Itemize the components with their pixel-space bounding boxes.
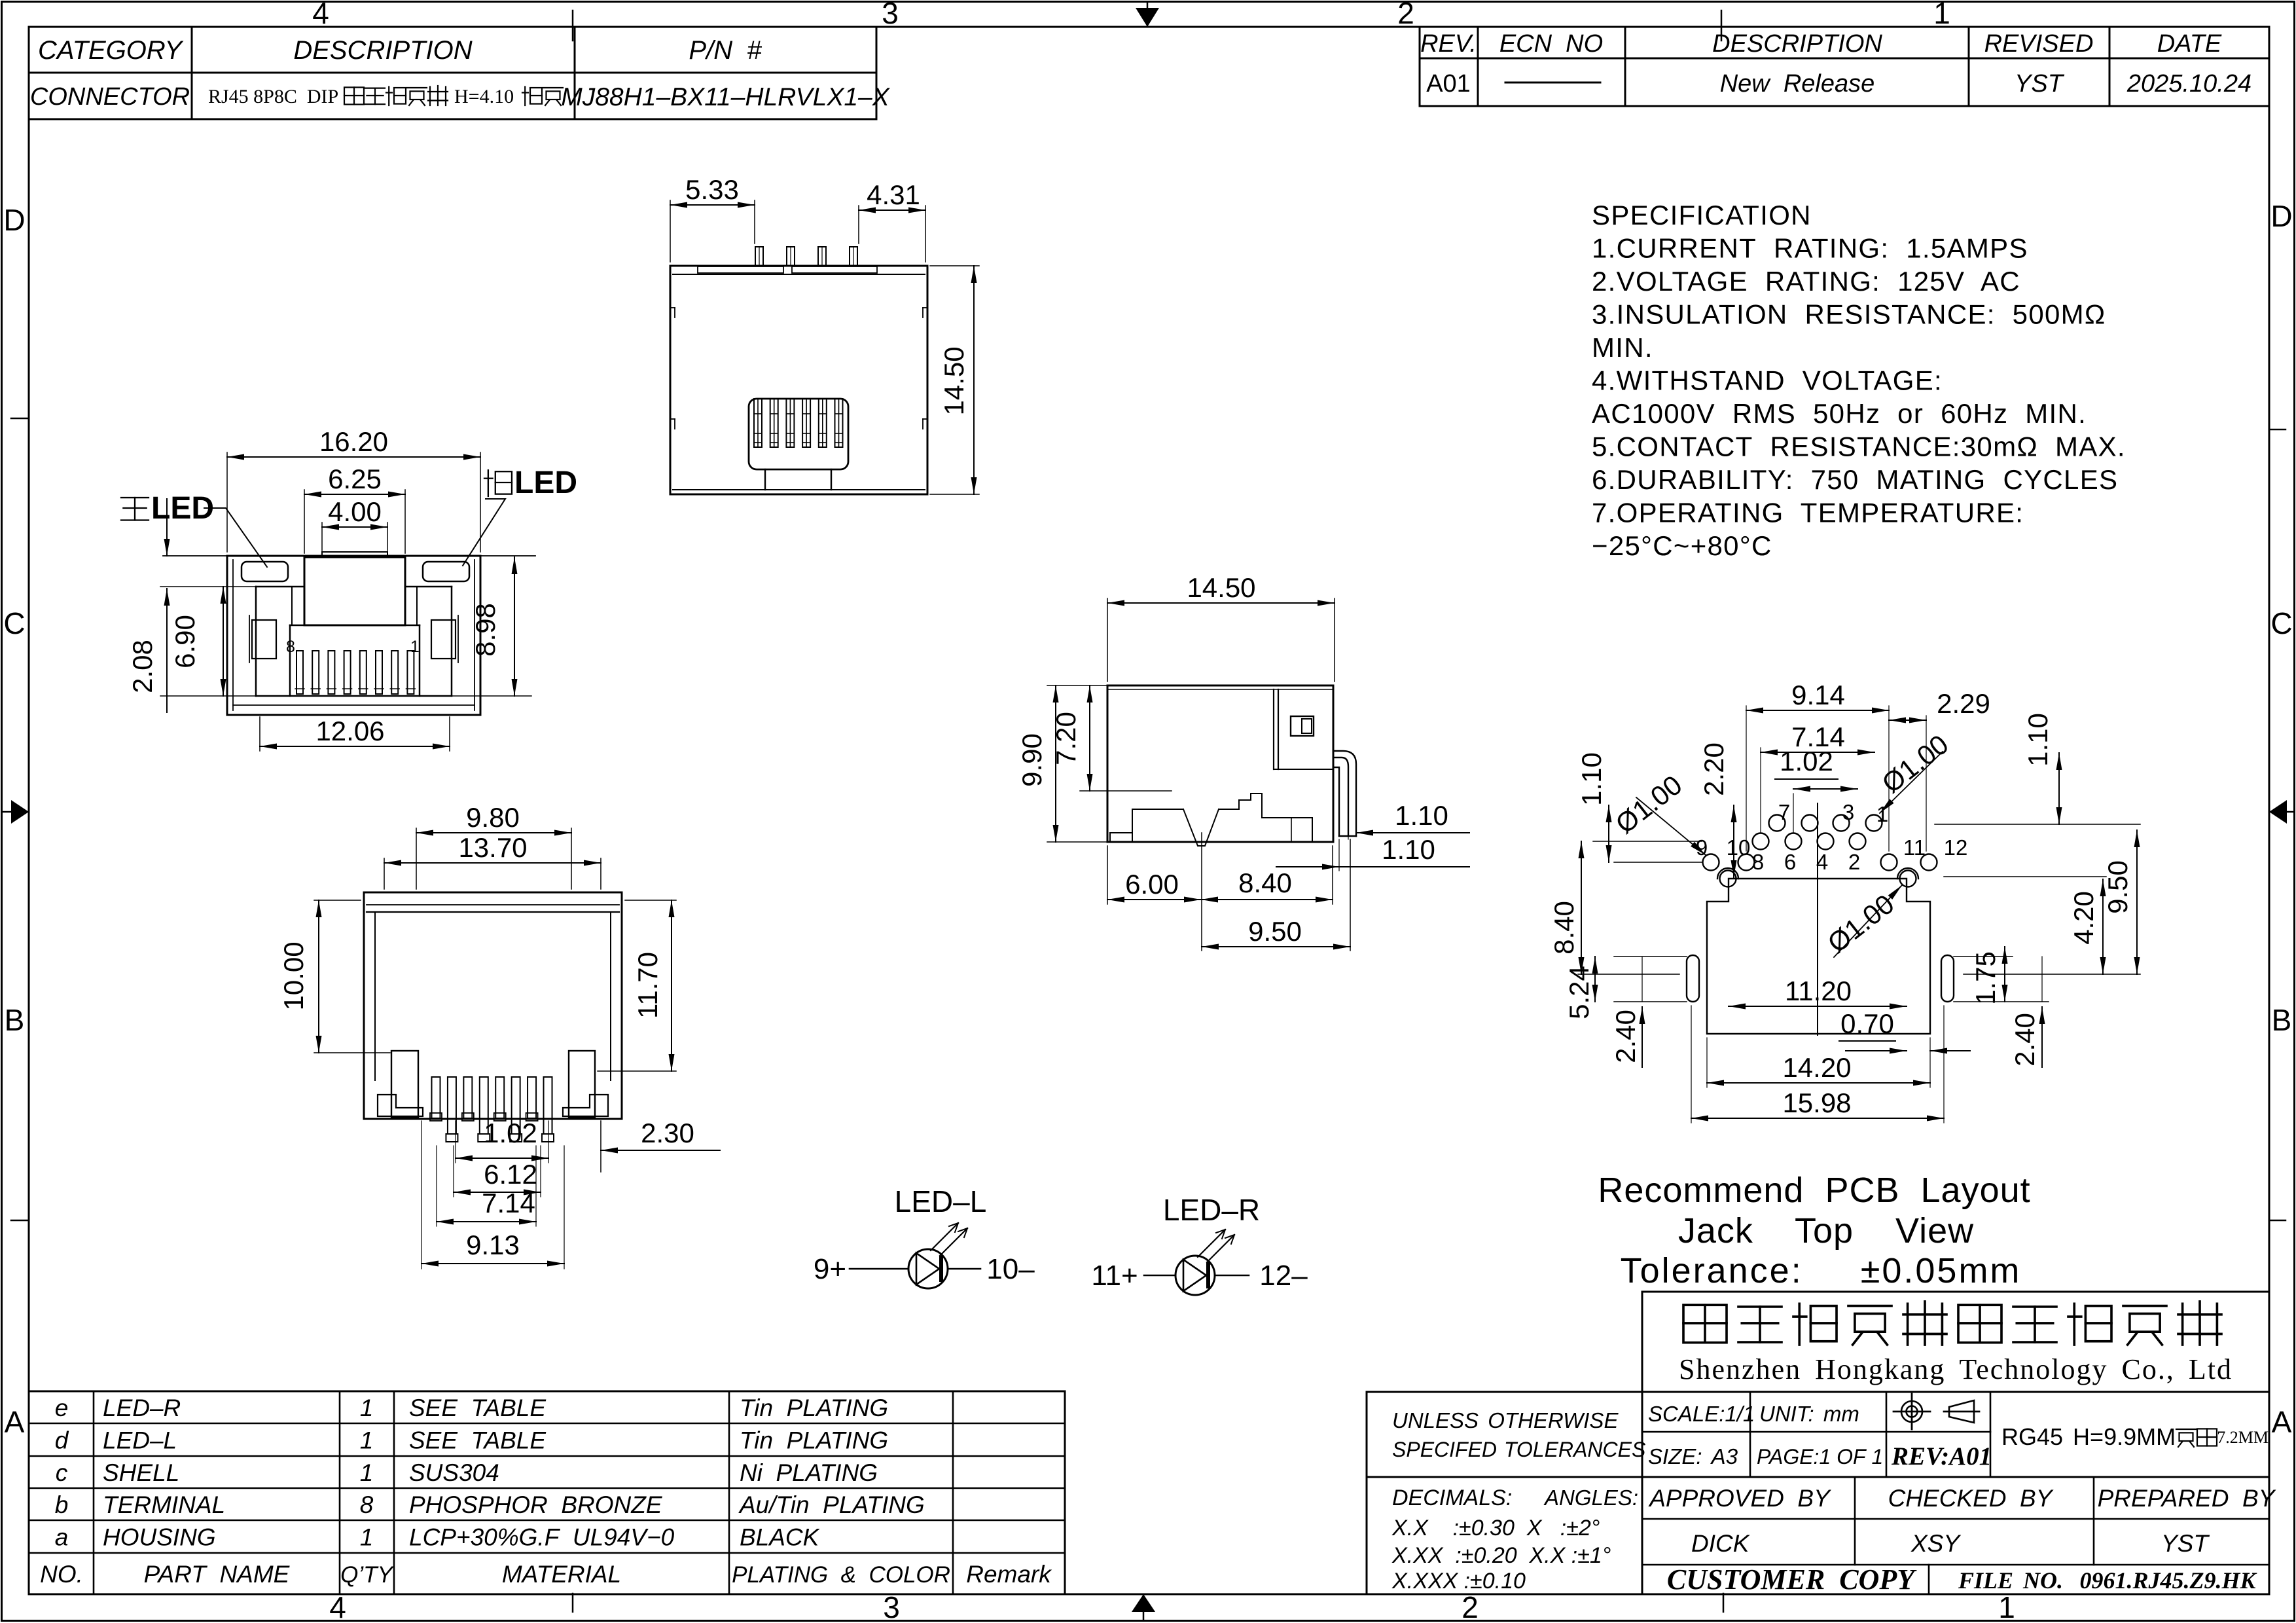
svg-text:B: B (2272, 1003, 2292, 1037)
svg-text:LED–L: LED–L (895, 1184, 987, 1218)
svg-text:12–: 12– (1259, 1260, 1308, 1292)
svg-text:DATE: DATE (2157, 30, 2222, 58)
svg-text:1: 1 (360, 1459, 374, 1486)
svg-text:SEE TABLE: SEE TABLE (409, 1427, 547, 1453)
svg-text:Ø1.00: Ø1.00 (1876, 729, 1954, 799)
svg-text:Ø1.00: Ø1.00 (1822, 888, 1900, 958)
svg-text:P/N #: P/N # (689, 36, 762, 65)
svg-text:Q’TY: Q’TY (340, 1562, 394, 1588)
svg-text:2.VOLTAGE RATING: 125V AC: 2.VOLTAGE RATING: 125V AC (1592, 266, 2020, 297)
svg-text:7.OPERATING TEMPERATURE:: 7.OPERATING TEMPERATURE: (1592, 498, 2024, 528)
svg-text:A: A (2272, 1405, 2292, 1439)
svg-text:AC1000V RMS 50Hz or 60Hz: AC1000V RMS 50Hz or 60Hz MIN. (1592, 398, 2087, 429)
svg-text:7.2MM: 7.2MM (2217, 1428, 2269, 1447)
svg-text:1: 1 (360, 1395, 374, 1421)
svg-text:8: 8 (286, 638, 295, 656)
svg-text:RG45 H=9.9MM: RG45 H=9.9MM (2001, 1423, 2176, 1450)
svg-text:UNIT: mm: UNIT: mm (1759, 1402, 1859, 1426)
svg-text:Au/Tin PLATING: Au/Tin PLATING (738, 1491, 925, 1518)
svg-text:HOUSING: HOUSING (103, 1524, 216, 1551)
svg-text:H=4.10: H=4.10 (454, 86, 514, 107)
svg-text:9.90: 9.90 (1016, 733, 1047, 787)
svg-text:1.10: 1.10 (1576, 752, 1607, 806)
svg-text:9.14: 9.14 (1791, 680, 1845, 710)
svg-text:SPECIFED TOLERANCES: SPECIFED TOLERANCES (1392, 1438, 1645, 1461)
svg-text:6.DURABILITY: 750 MATING CY: 6.DURABILITY: 750 MATING CYCLES (1592, 464, 2118, 495)
svg-text:Recommend PCB Layout: Recommend PCB Layout (1598, 1171, 2030, 1210)
svg-text:1: 1 (1998, 1590, 2015, 1623)
svg-text:7.20: 7.20 (1050, 712, 1081, 765)
svg-text:CATEGORY: CATEGORY (38, 36, 184, 65)
svg-text:6: 6 (1784, 850, 1796, 874)
svg-text:5.33: 5.33 (685, 174, 739, 205)
svg-text:1.10: 1.10 (1382, 834, 1435, 865)
svg-text:Ø1.00: Ø1.00 (1610, 769, 1688, 839)
svg-text:3: 3 (882, 0, 899, 30)
svg-text:A: A (5, 1405, 25, 1439)
svg-text:C: C (3, 606, 25, 640)
svg-text:Tin PLATING: Tin PLATING (740, 1395, 888, 1421)
svg-text:6.25: 6.25 (328, 464, 382, 494)
svg-text:6.00: 6.00 (1125, 869, 1179, 900)
svg-text:PART NAME: PART NAME (144, 1561, 291, 1588)
svg-text:14.50: 14.50 (939, 346, 969, 415)
svg-text:PREPARED BY: PREPARED BY (2098, 1485, 2276, 1512)
svg-text:6.12: 6.12 (484, 1159, 537, 1190)
svg-text:LCP+30%G.F UL94V−0: LCP+30%G.F UL94V−0 (409, 1524, 675, 1551)
svg-text:1: 1 (1933, 0, 1950, 30)
svg-text:12.06: 12.06 (315, 716, 384, 746)
svg-text:11+: 11+ (1091, 1260, 1138, 1292)
svg-text:8.40: 8.40 (1549, 901, 1579, 955)
svg-text:11.20: 11.20 (1785, 976, 1852, 1006)
svg-text:DESCRIPTION: DESCRIPTION (1712, 30, 1882, 58)
svg-text:1: 1 (360, 1427, 374, 1453)
svg-text:Jack Top View: Jack Top View (1678, 1211, 1974, 1250)
svg-text:X.XX :±0.20 X.X :±1°: X.XX :±0.20 X.X :±1° (1391, 1543, 1611, 1568)
svg-text:8: 8 (360, 1491, 374, 1518)
svg-text:4.WITHSTAND VOLTAGE:: 4.WITHSTAND VOLTAGE: (1592, 365, 1943, 396)
svg-text:XSY: XSY (1910, 1530, 1961, 1557)
svg-text:MATERIAL: MATERIAL (502, 1561, 621, 1588)
svg-text:14.20: 14.20 (1782, 1052, 1851, 1083)
svg-text:12: 12 (1944, 835, 1968, 860)
svg-text:2.30: 2.30 (641, 1118, 694, 1148)
svg-text:CUSTOMER COPY: CUSTOMER COPY (1667, 1563, 1917, 1596)
svg-text:X.X :±0.30 X :±2°: X.X :±0.30 X :±2° (1391, 1516, 1600, 1541)
svg-text:e: e (55, 1395, 69, 1421)
svg-text:2025.10.24: 2025.10.24 (2126, 70, 2251, 98)
svg-text:1.75: 1.75 (1970, 951, 2001, 1005)
svg-text:REV.: REV. (1420, 30, 1477, 58)
svg-text:10–: 10– (986, 1253, 1035, 1285)
svg-text:b: b (55, 1491, 69, 1518)
svg-text:PLATING & COLOR: PLATING & COLOR (732, 1562, 950, 1588)
svg-text:2: 2 (1397, 0, 1414, 30)
svg-text:8.40: 8.40 (1238, 867, 1292, 898)
svg-text:9.50: 9.50 (2102, 860, 2133, 914)
svg-text:DESCRIPTION: DESCRIPTION (293, 36, 472, 65)
svg-text:9+: 9+ (814, 1253, 846, 1285)
svg-text:1.10: 1.10 (2022, 713, 2053, 767)
svg-text:REVISED: REVISED (1984, 30, 2094, 58)
svg-text:Remark: Remark (966, 1561, 1052, 1588)
svg-text:8.98: 8.98 (470, 603, 501, 657)
svg-text:SIZE: A3: SIZE: A3 (1648, 1444, 1738, 1468)
svg-text:UNLESS OTHERWISE: UNLESS OTHERWISE (1392, 1408, 1619, 1432)
svg-text:YST: YST (2161, 1530, 2210, 1557)
svg-text:NO.: NO. (40, 1561, 83, 1588)
svg-text:5.24: 5.24 (1564, 966, 1594, 1019)
svg-text:2.29: 2.29 (1937, 688, 1990, 719)
svg-text:1: 1 (410, 638, 420, 656)
svg-text:MJ88H1–BX11–HLRVLX1–X: MJ88H1–BX11–HLRVLX1–X (561, 83, 891, 111)
svg-text:SHELL: SHELL (103, 1459, 179, 1486)
svg-text:TERMINAL: TERMINAL (103, 1491, 225, 1518)
svg-text:SEE TABLE: SEE TABLE (409, 1395, 547, 1421)
svg-text:9.50: 9.50 (1248, 916, 1302, 947)
svg-text:0961.RJ45.Z9.HK: 0961.RJ45.Z9.HK (2079, 1567, 2257, 1594)
svg-text:REV:A01: REV:A01 (1891, 1442, 1992, 1470)
svg-text:B: B (5, 1003, 25, 1037)
svg-text:2.20: 2.20 (1698, 742, 1729, 796)
svg-text:5.CONTACT RESISTANCE:30mΩ MA: 5.CONTACT RESISTANCE:30mΩ MAX. (1592, 431, 2126, 462)
svg-text:PHOSPHOR BRONZE: PHOSPHOR BRONZE (409, 1491, 663, 1518)
svg-text:1.CURRENT RATING: 1.5AMPS: 1.CURRENT RATING: 1.5AMPS (1592, 233, 2028, 264)
svg-text:4: 4 (312, 0, 329, 30)
svg-text:6.90: 6.90 (170, 615, 200, 668)
svg-text:D: D (2270, 199, 2292, 233)
svg-text:3.INSULATION RESISTANCE: 500: 3.INSULATION RESISTANCE: 500MΩ (1592, 299, 2106, 330)
svg-text:ANGLES:: ANGLES: (1543, 1486, 1638, 1510)
svg-text:10.00: 10.00 (278, 941, 309, 1010)
svg-text:SUS304: SUS304 (409, 1459, 499, 1486)
svg-text:Shenzhen Hongkang Technology C: Shenzhen Hongkang Technology Co., Ltd (1679, 1353, 2233, 1385)
svg-text:ECN NO: ECN NO (1499, 30, 1603, 58)
svg-text:8: 8 (1752, 850, 1764, 874)
svg-text:DICK: DICK (1691, 1530, 1751, 1557)
svg-text:LED–L: LED–L (103, 1427, 177, 1453)
svg-text:APPROVED BY: APPROVED BY (1648, 1485, 1831, 1512)
svg-text:LED–R: LED–R (103, 1395, 181, 1421)
svg-text:Tolerance: ±0.05mm: Tolerance: ±0.05mm (1621, 1251, 2022, 1290)
svg-text:PAGE:1 OF 1: PAGE:1 OF 1 (1757, 1445, 1883, 1468)
svg-text:X.XXX :±0.10: X.XXX :±0.10 (1391, 1569, 1526, 1594)
svg-text:9.80: 9.80 (466, 802, 520, 833)
svg-text:7: 7 (1778, 800, 1790, 824)
svg-text:1: 1 (360, 1524, 374, 1551)
svg-text:C: C (2270, 606, 2292, 640)
svg-text:D: D (3, 203, 25, 237)
svg-text:2: 2 (1848, 850, 1860, 874)
svg-text:3: 3 (1842, 800, 1854, 824)
svg-text:7.14: 7.14 (482, 1188, 535, 1218)
svg-text:FILE NO.: FILE NO. (1958, 1567, 2063, 1594)
svg-text:RJ45 8P8C DIP: RJ45 8P8C DIP (208, 86, 338, 107)
svg-text:1.02: 1.02 (484, 1118, 537, 1148)
svg-text:CHECKED BY: CHECKED BY (1888, 1485, 2054, 1512)
svg-text:LED–R: LED–R (1163, 1193, 1260, 1227)
svg-text:10: 10 (1727, 835, 1751, 860)
svg-text:4: 4 (1816, 850, 1828, 874)
svg-text:LED: LED (514, 465, 577, 500)
svg-text:14.50: 14.50 (1187, 572, 1255, 603)
svg-text:A01: A01 (1426, 70, 1471, 98)
svg-text:11.70: 11.70 (632, 952, 663, 1019)
svg-text:YST: YST (2015, 70, 2065, 98)
svg-text:SCALE:1/1: SCALE:1/1 (1648, 1402, 1755, 1426)
svg-text:Tin PLATING: Tin PLATING (740, 1427, 888, 1453)
svg-text:Ni PLATING: Ni PLATING (740, 1459, 878, 1486)
svg-text:0.70: 0.70 (1840, 1008, 1894, 1039)
svg-text:16.20: 16.20 (319, 426, 388, 457)
svg-text:1.02: 1.02 (1780, 746, 1833, 776)
svg-text:2.08: 2.08 (127, 640, 158, 693)
svg-text:11: 11 (1903, 835, 1926, 860)
svg-text:4.31: 4.31 (867, 179, 920, 210)
svg-text:BLACK: BLACK (740, 1524, 821, 1551)
svg-text:SPECIFICATION: SPECIFICATION (1592, 200, 1812, 230)
svg-text:9.13: 9.13 (466, 1230, 520, 1260)
svg-text:15.98: 15.98 (1782, 1087, 1851, 1118)
svg-text:New Release: New Release (1720, 70, 1875, 98)
svg-text:2.40: 2.40 (1610, 1010, 1641, 1063)
svg-text:2.40: 2.40 (2009, 1013, 2040, 1067)
svg-text:−25°C~+80°C: −25°C~+80°C (1592, 530, 1772, 561)
svg-text:2: 2 (1462, 1590, 1479, 1623)
svg-text:d: d (55, 1427, 69, 1453)
svg-text:DECIMALS:: DECIMALS: (1392, 1486, 1512, 1510)
svg-text:MIN.: MIN. (1592, 332, 1653, 363)
svg-text:13.70: 13.70 (458, 832, 527, 863)
svg-text:CONNECTOR: CONNECTOR (30, 83, 190, 111)
svg-text:4.00: 4.00 (328, 496, 382, 527)
svg-text:4.20: 4.20 (2068, 891, 2099, 945)
svg-text:c: c (56, 1459, 68, 1486)
svg-text:1.10: 1.10 (1395, 800, 1448, 831)
svg-text:a: a (55, 1524, 69, 1551)
